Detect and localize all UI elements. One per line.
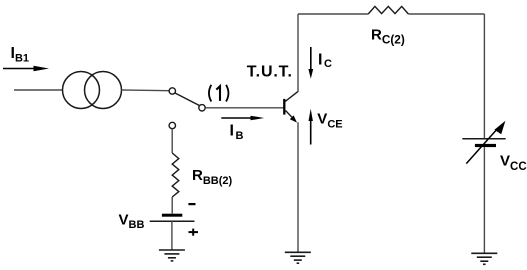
wire VCC to ground [483, 147, 485, 253]
wire base [205, 107, 283, 109]
wire collector riser [297, 14, 299, 92]
switch throw terminal (position 2) [169, 122, 175, 128]
battery V_CC plates [462, 139, 505, 147]
wire battery to ground [171, 221, 173, 250]
ground (VCC) [471, 253, 497, 264]
wire top rail left [298, 13, 368, 15]
svg-text:T.U.T.: T.U.T. [247, 64, 293, 81]
svg-text:RBB(2): RBB(2) [192, 167, 233, 187]
switch throw terminal (position 1) [199, 105, 205, 111]
current source I_B1 (overlapping circles) [63, 72, 122, 109]
svg-text:IB: IB [230, 123, 244, 143]
wire VCC riser [483, 14, 485, 139]
wire top rail right [408, 13, 484, 15]
battery V_BB plates [150, 214, 195, 222]
variable arrow through V_CC [466, 121, 505, 164]
ground (V_BB) [159, 250, 185, 261]
wire current source to switch pole [122, 89, 170, 92]
label plus [189, 229, 199, 236]
svg-text:VCC: VCC [500, 153, 527, 173]
ground (emitter) [285, 252, 311, 263]
label (1) [209, 85, 229, 102]
switch pole terminal [169, 88, 175, 94]
arrow V_CE [309, 109, 313, 145]
transistor Q1 collector diagonal [285, 91, 298, 101]
wire left lead to current source [14, 89, 63, 91]
transistor Q1 base bar [283, 99, 285, 115]
resistor R_BB(2) [172, 153, 179, 197]
wire emitter to ground [297, 122, 299, 252]
transistor Q1 emitter diagonal with arrow [286, 111, 298, 123]
wire resistor to battery [171, 197, 173, 214]
label minus [188, 203, 195, 205]
svg-text:RC(2): RC(2) [371, 26, 405, 46]
switch blade [175, 93, 200, 106]
wire switch position 2 down to resistor [171, 129, 173, 153]
svg-text:VCE: VCE [317, 111, 342, 131]
resistor R_C(2) [368, 6, 408, 14]
arrow I_C [308, 47, 313, 79]
svg-text:IC: IC [318, 52, 332, 71]
svg-text:VBB: VBB [119, 212, 145, 232]
svg-text:IB1: IB1 [11, 45, 30, 65]
arrow I_B1 [3, 66, 49, 71]
arrow I_B [221, 116, 264, 121]
